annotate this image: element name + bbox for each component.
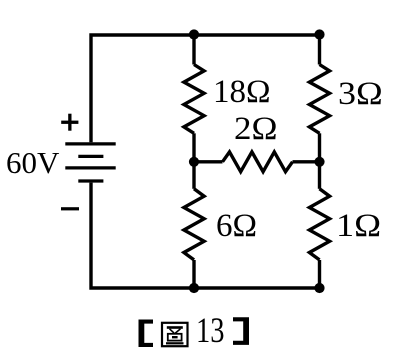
wire right branch mid <box>318 133 321 189</box>
resistor 18 ohm <box>184 65 204 134</box>
battery short plate upper <box>78 155 103 158</box>
label 60V <box>6 145 59 181</box>
caption character tu (figure 13 chinese) <box>162 323 188 346</box>
wire middle branch bottom <box>192 260 195 288</box>
node dot bottom middle <box>189 283 199 293</box>
resistor 6 ohm <box>184 189 204 260</box>
battery long plate lower <box>65 166 115 169</box>
wire middle horizontal right stub <box>293 160 320 163</box>
wire top horizontal and left upper <box>91 35 320 142</box>
node dot top middle <box>189 29 199 39</box>
caption right lenticular bracket <box>233 317 249 345</box>
node dot top right <box>314 29 324 39</box>
label 18 ohm <box>213 74 271 111</box>
wire right branch bottom <box>318 260 321 288</box>
label 1 ohm <box>336 208 381 245</box>
battery minus polarity mark <box>61 207 79 210</box>
node dot mid middle <box>189 157 199 167</box>
wire middle horizontal left stub <box>194 160 223 163</box>
wire middle branch top <box>192 35 195 65</box>
resistor 1 ohm <box>309 189 329 260</box>
resistor 2 ohm <box>223 152 293 172</box>
label 2 ohm <box>234 111 277 148</box>
caption left lenticular bracket <box>139 320 154 348</box>
caption number 13 <box>196 312 225 352</box>
wire middle branch mid <box>192 133 195 189</box>
node dot mid right <box>314 157 324 167</box>
battery short plate bottom <box>78 179 103 182</box>
label 6 ohm <box>216 208 257 245</box>
wire right branch top <box>318 35 321 65</box>
wire left lower and bottom horizontal <box>91 183 320 288</box>
resistor 3 ohm <box>309 65 329 134</box>
node dot bottom right <box>314 283 324 293</box>
battery plus polarity mark <box>61 121 78 124</box>
battery 60V long plate top <box>65 142 115 145</box>
label 3 ohm <box>338 76 383 113</box>
